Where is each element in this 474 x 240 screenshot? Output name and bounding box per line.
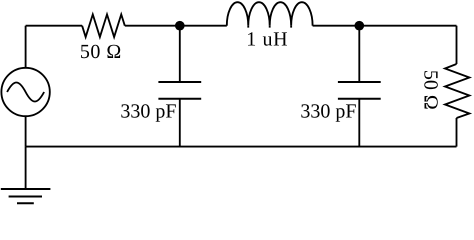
svg-text:50 Ω: 50 Ω	[80, 41, 122, 63]
svg-text:50 Ω: 50 Ω	[420, 70, 442, 110]
svg-text:330 pF: 330 pF	[120, 100, 176, 122]
svg-text:330 pF: 330 pF	[300, 100, 356, 122]
svg-text:1 uH: 1 uH	[246, 29, 288, 51]
